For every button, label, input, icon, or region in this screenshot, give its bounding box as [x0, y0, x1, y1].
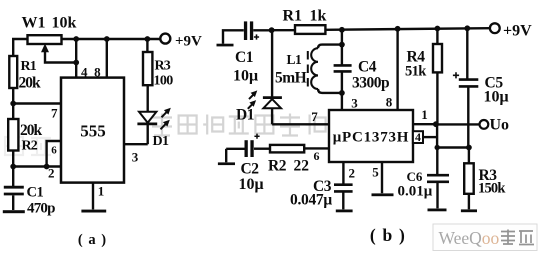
photodiode D1 [271, 30, 273, 96]
svg-text:+9V: +9V [175, 34, 202, 50]
wire pin1 [92, 183, 94, 210]
svg-text:10μ: 10μ [484, 89, 509, 106]
tank node wire [339, 27, 345, 33]
wire C1 to ground [12, 195, 14, 210]
resistor R2 22 [254, 147, 270, 149]
wire R3 to LED [146, 85, 148, 111]
pin4 box [413, 131, 423, 143]
terminal +9V [160, 34, 170, 44]
svg-text:C2: C2 [241, 161, 260, 178]
labels circuit (a) [19, 14, 203, 248]
svg-text:6: 6 [314, 149, 320, 163]
svg-text:+9V: +9V [503, 23, 532, 40]
wiper of W1 [45, 51, 76, 63]
wire R1 to R2 [12, 88, 14, 119]
svg-text:R3: R3 [155, 59, 171, 74]
resistor R1 [9, 56, 17, 88]
ground pin1 [81, 210, 106, 213]
svg-text:R2: R2 [268, 158, 287, 175]
resistor R4 51k [435, 26, 441, 32]
wire pin4 [75, 39, 77, 78]
capacitor C5 10u [464, 25, 470, 31]
svg-text:D1: D1 [153, 134, 170, 149]
svg-text:L1: L1 [287, 52, 303, 67]
wire R3 branch [146, 39, 148, 52]
ground under C3 [336, 210, 353, 213]
ground under C2 [218, 162, 235, 165]
svg-text:8: 8 [94, 65, 101, 80]
svg-text:Uo: Uo [490, 117, 510, 134]
ground [3, 210, 25, 213]
svg-text:3: 3 [351, 96, 358, 111]
wire pin2 b + capacitor C3 [342, 162, 344, 184]
svg-text:D1: D1 [236, 107, 254, 124]
terminal Uo [480, 120, 489, 129]
LED arrows [162, 111, 168, 117]
wire pin1 b [413, 123, 436, 125]
resistor R1 1k [295, 25, 325, 34]
svg-text:0.047μ: 0.047μ [290, 192, 332, 209]
wire pin6 [47, 141, 61, 167]
svg-text:7: 7 [311, 109, 318, 124]
wire Uo [436, 123, 480, 125]
svg-text:555: 555 [80, 122, 106, 141]
svg-text:4: 4 [81, 65, 88, 80]
svg-text:C4: C4 [358, 59, 377, 76]
node R3/C5 junction [466, 145, 472, 151]
wire top rail b [272, 29, 295, 31]
resistor R3 150k [468, 148, 470, 164]
svg-text:8: 8 [386, 95, 393, 110]
potentiometer W1 [28, 35, 62, 44]
svg-text:R2: R2 [22, 139, 38, 154]
wire pin1 node down and right to R3/C5 node [437, 124, 469, 147]
resistor R2 (20k) [8, 119, 18, 151]
node C6 junction [435, 145, 440, 150]
capacitor C1 470p [4, 187, 24, 194]
svg-text:5mH: 5mH [275, 70, 307, 87]
svg-text:2: 2 [48, 166, 55, 181]
labels circuit (b) [233, 8, 532, 246]
wire pin8 [106, 39, 108, 78]
node junction dots [73, 36, 79, 42]
op IC uPC1373H body [329, 110, 413, 162]
wire pin3 [124, 143, 148, 145]
svg-text:C6: C6 [407, 169, 423, 184]
svg-text:0.01μ: 0.01μ [398, 184, 433, 200]
ground under C6 [428, 209, 447, 212]
svg-text:470p: 470p [27, 201, 55, 217]
svg-text:W1: W1 [22, 14, 46, 31]
svg-text:10μ: 10μ [233, 68, 258, 85]
terminal +9V b [490, 23, 500, 33]
wire pin4 [423, 136, 437, 138]
svg-text:C1: C1 [27, 185, 44, 201]
svg-text:WeeQoo: WeeQoo [439, 228, 500, 248]
svg-text:1: 1 [421, 107, 428, 122]
svg-text:150k: 150k [478, 181, 506, 197]
svg-text:10k: 10k [52, 14, 77, 31]
wire pin7 [13, 102, 61, 104]
wire pin2 [13, 165, 61, 167]
D1 arrows [249, 94, 254, 99]
ground at C1 input [217, 44, 234, 47]
svg-text:( b ): ( b ) [370, 225, 406, 245]
svg-text:μPC1373H: μPC1373H [333, 130, 410, 146]
decorative watermark row [152, 114, 402, 136]
svg-text:6: 6 [51, 145, 57, 157]
svg-text:( a ): ( a ) [78, 232, 107, 248]
capacitor C4 3300p [334, 65, 352, 71]
svg-text:3: 3 [132, 150, 139, 165]
capacitor C1 10u [244, 21, 247, 40]
svg-text:20k: 20k [20, 122, 43, 139]
svg-text:4: 4 [415, 130, 421, 144]
wire left rail top [13, 39, 27, 56]
svg-text:C1: C1 [235, 49, 253, 66]
svg-text:3300p: 3300p [352, 75, 389, 92]
svg-text:100: 100 [154, 74, 174, 89]
svg-text:1k: 1k [310, 8, 327, 25]
inductor L1 5mH [318, 45, 342, 93]
svg-text:5: 5 [372, 165, 379, 180]
capacitor C2 10u [245, 140, 248, 157]
wire pin8 b [396, 29, 398, 110]
svg-text:7: 7 [51, 106, 58, 121]
svg-text:2: 2 [349, 166, 356, 181]
op IC 555 body [61, 78, 124, 183]
svg-text:10μ: 10μ [239, 176, 264, 193]
LED D1 [139, 112, 156, 123]
wire C2 left lead [226, 148, 244, 150]
wire pin6 b [304, 147, 329, 149]
wire pin5 b + ground [381, 162, 383, 193]
svg-text:51k: 51k [405, 64, 427, 80]
capacitor C6 0.01u [427, 175, 449, 182]
svg-text:20k: 20k [19, 75, 42, 92]
svg-text:1: 1 [98, 184, 105, 199]
wire C6 top lead [436, 148, 438, 176]
wire top rail [62, 38, 161, 40]
svg-text:22: 22 [294, 158, 310, 175]
svg-text:R1: R1 [283, 8, 303, 25]
wire R2 bottom to C1 [12, 151, 14, 187]
svg-text:R1: R1 [21, 59, 37, 74]
ground under R3 [461, 209, 477, 212]
resistor R3 100 [143, 52, 152, 85]
wire pin7 b [272, 123, 329, 125]
